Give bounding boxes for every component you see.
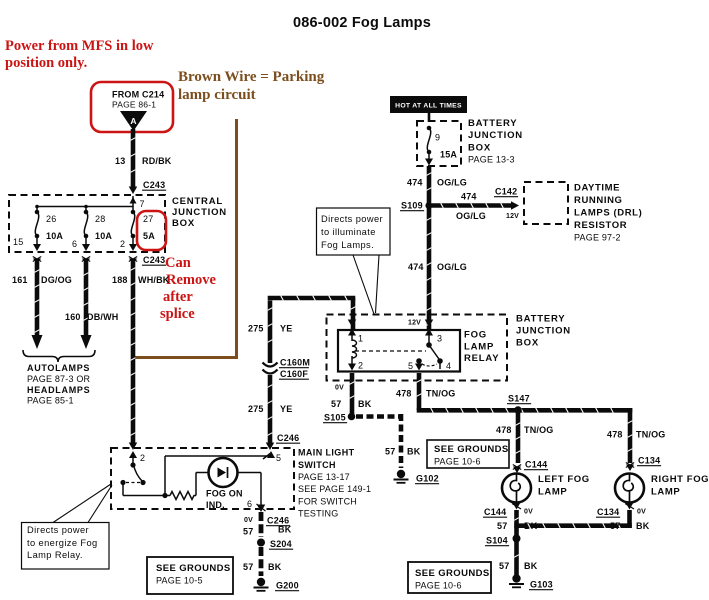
svg-text:Power from MFS in low: Power from MFS in low (5, 38, 154, 54)
svg-text:275: 275 (248, 404, 264, 414)
svg-text:C134: C134 (597, 507, 619, 517)
svg-text:188: 188 (112, 275, 128, 285)
svg-text:position only.: position only. (5, 55, 87, 71)
svg-text:after: after (163, 289, 193, 305)
svg-text:BOX: BOX (516, 338, 539, 349)
svg-text:57: 57 (243, 562, 253, 572)
svg-text:SEE PAGE 149-1: SEE PAGE 149-1 (298, 484, 371, 494)
svg-text:160: 160 (65, 312, 81, 322)
svg-text:S105: S105 (324, 413, 346, 423)
svg-text:G102: G102 (416, 474, 439, 484)
svg-text:WH/BK: WH/BK (138, 275, 170, 285)
svg-text:PAGE 86-1: PAGE 86-1 (112, 100, 156, 110)
svg-text:1: 1 (358, 334, 363, 344)
svg-text:3: 3 (437, 334, 442, 344)
svg-text:C243: C243 (143, 180, 165, 190)
svg-text:FOG ON: FOG ON (206, 489, 243, 499)
svg-text:10A: 10A (95, 231, 112, 241)
svg-text:RELAY: RELAY (464, 353, 499, 364)
svg-text:TN/OG: TN/OG (636, 430, 666, 440)
svg-text:57: 57 (610, 521, 620, 531)
svg-text:2: 2 (358, 361, 363, 371)
svg-text:PAGE 10-5: PAGE 10-5 (156, 576, 203, 586)
svg-text:SWITCH: SWITCH (298, 460, 336, 470)
svg-text:Directs power: Directs power (321, 214, 383, 224)
svg-text:0V: 0V (524, 509, 533, 516)
svg-text:478: 478 (396, 389, 412, 399)
svg-text:5A: 5A (143, 231, 155, 241)
svg-text:C243: C243 (143, 255, 165, 265)
svg-text:478: 478 (496, 425, 512, 435)
svg-text:YE: YE (280, 404, 292, 414)
svg-text:C160F: C160F (280, 369, 308, 379)
svg-text:RD/BK: RD/BK (142, 156, 172, 166)
svg-text:BOX: BOX (468, 143, 491, 154)
svg-text:57: 57 (331, 399, 341, 409)
svg-text:LAMP: LAMP (651, 487, 680, 498)
svg-text:YE: YE (280, 324, 292, 334)
svg-text:6: 6 (72, 239, 77, 249)
svg-text:15A: 15A (440, 150, 457, 160)
svg-text:OG/LG: OG/LG (437, 262, 467, 272)
svg-text:15: 15 (13, 237, 23, 247)
svg-text:C144: C144 (525, 460, 547, 470)
svg-text:Brown Wire = Parking: Brown Wire = Parking (178, 69, 325, 85)
svg-text:CENTRAL: CENTRAL (172, 196, 223, 207)
svg-text:7: 7 (140, 199, 145, 209)
svg-text:28: 28 (95, 214, 105, 224)
svg-text:12V: 12V (408, 320, 421, 327)
svg-text:57: 57 (243, 527, 253, 537)
svg-text:57: 57 (499, 561, 509, 571)
svg-text:10A: 10A (46, 231, 63, 241)
svg-text:HEADLAMPS: HEADLAMPS (27, 385, 90, 395)
svg-text:Directs power: Directs power (27, 525, 89, 535)
svg-text:DG/OG: DG/OG (41, 275, 72, 285)
svg-text:S109: S109 (401, 201, 423, 211)
svg-text:BATTERY: BATTERY (516, 314, 565, 325)
svg-text:JUNCTION: JUNCTION (516, 326, 571, 337)
svg-text:JUNCTION: JUNCTION (172, 207, 227, 218)
svg-text:to illuminate: to illuminate (321, 227, 376, 237)
svg-text:OG/LG: OG/LG (456, 211, 486, 221)
svg-text:Fog Lamps.: Fog Lamps. (321, 240, 374, 250)
svg-text:12V: 12V (506, 213, 519, 220)
svg-text:0V: 0V (335, 385, 344, 392)
svg-text:TN/OG: TN/OG (426, 389, 456, 399)
svg-text:57: 57 (497, 521, 507, 531)
svg-text:BK: BK (358, 399, 372, 409)
svg-text:PAGE 10-6: PAGE 10-6 (415, 581, 462, 591)
svg-text:splice: splice (160, 306, 195, 322)
svg-text:A: A (130, 116, 136, 126)
svg-text:SEE GROUNDS: SEE GROUNDS (434, 444, 509, 455)
svg-text:S104: S104 (486, 536, 508, 546)
svg-text:C144: C144 (484, 507, 506, 517)
svg-text:AUTOLAMPS: AUTOLAMPS (27, 363, 90, 373)
svg-text:LAMPS (DRL): LAMPS (DRL) (574, 208, 642, 219)
svg-text:RIGHT FOG: RIGHT FOG (651, 474, 709, 485)
svg-text:to energize Fog: to energize Fog (27, 538, 98, 548)
svg-text:JUNCTION: JUNCTION (468, 130, 523, 141)
svg-text:9: 9 (435, 133, 440, 143)
svg-text:DB/WH: DB/WH (87, 312, 119, 322)
svg-text:RESISTOR: RESISTOR (574, 220, 627, 231)
svg-text:G200: G200 (276, 581, 299, 591)
svg-text:FOG: FOG (464, 330, 487, 341)
svg-text:G103: G103 (530, 580, 553, 590)
svg-text:RUNNING: RUNNING (574, 195, 623, 206)
svg-text:TESTING: TESTING (298, 509, 338, 519)
svg-text:LAMP: LAMP (464, 342, 494, 353)
svg-text:IND.: IND. (206, 500, 225, 510)
svg-text:086-002 Fog Lamps: 086-002 Fog Lamps (293, 15, 431, 31)
svg-text:MAIN LIGHT: MAIN LIGHT (298, 448, 355, 458)
svg-text:SEE GROUNDS: SEE GROUNDS (415, 568, 490, 579)
svg-text:2: 2 (140, 453, 145, 463)
svg-text:LAMP: LAMP (538, 487, 567, 498)
svg-text:6: 6 (247, 499, 252, 509)
svg-text:Lamp Relay.: Lamp Relay. (27, 550, 83, 560)
svg-text:PAGE 13-17: PAGE 13-17 (298, 472, 350, 482)
svg-text:PAGE 97-2: PAGE 97-2 (574, 233, 621, 243)
svg-text:275: 275 (248, 324, 264, 334)
svg-text:S147: S147 (508, 394, 530, 404)
svg-text:BK: BK (407, 447, 421, 457)
svg-text:PAGE 10-6: PAGE 10-6 (434, 457, 481, 467)
svg-text:474: 474 (461, 192, 477, 202)
svg-text:LEFT FOG: LEFT FOG (538, 474, 590, 485)
svg-text:57: 57 (385, 447, 395, 457)
svg-text:5: 5 (276, 453, 281, 463)
svg-text:0V: 0V (244, 517, 253, 524)
svg-text:BK: BK (278, 525, 292, 535)
svg-text:HOT AT ALL TIMES: HOT AT ALL TIMES (395, 103, 462, 110)
svg-text:BK: BK (268, 562, 282, 572)
svg-text:Can: Can (165, 255, 191, 271)
svg-text:DAYTIME: DAYTIME (574, 183, 620, 194)
svg-text:26: 26 (46, 214, 56, 224)
svg-text:27: 27 (143, 214, 153, 224)
svg-text:BOX: BOX (172, 218, 195, 229)
svg-text:SEE GROUNDS: SEE GROUNDS (156, 563, 231, 574)
svg-text:TN/OG: TN/OG (524, 425, 554, 435)
svg-text:PAGE 13-3: PAGE 13-3 (468, 155, 515, 165)
svg-text:474: 474 (408, 262, 424, 272)
svg-text:474: 474 (407, 178, 423, 188)
svg-text:FOR SWITCH: FOR SWITCH (298, 497, 357, 507)
svg-text:C160M: C160M (280, 358, 310, 368)
svg-text:Remove: Remove (166, 272, 216, 288)
svg-text:PAGE 87-3 OR: PAGE 87-3 OR (27, 374, 91, 384)
svg-text:4: 4 (446, 361, 451, 371)
svg-text:C134: C134 (638, 456, 660, 466)
svg-text:13: 13 (115, 156, 125, 166)
svg-text:lamp circuit: lamp circuit (178, 87, 256, 103)
svg-text:2: 2 (120, 239, 125, 249)
svg-text:S204: S204 (270, 539, 292, 549)
svg-text:0V: 0V (637, 509, 646, 516)
svg-text:5: 5 (408, 361, 413, 371)
svg-text:FROM C214: FROM C214 (112, 90, 164, 100)
svg-text:BK: BK (636, 521, 650, 531)
svg-text:BATTERY: BATTERY (468, 118, 517, 129)
svg-text:PAGE 85-1: PAGE 85-1 (27, 396, 74, 406)
svg-text:C142: C142 (495, 187, 517, 197)
svg-text:C246: C246 (277, 433, 299, 443)
svg-text:OG/LG: OG/LG (437, 178, 467, 188)
svg-text:478: 478 (607, 430, 623, 440)
svg-text:BK: BK (524, 561, 538, 571)
svg-text:161: 161 (12, 275, 28, 285)
